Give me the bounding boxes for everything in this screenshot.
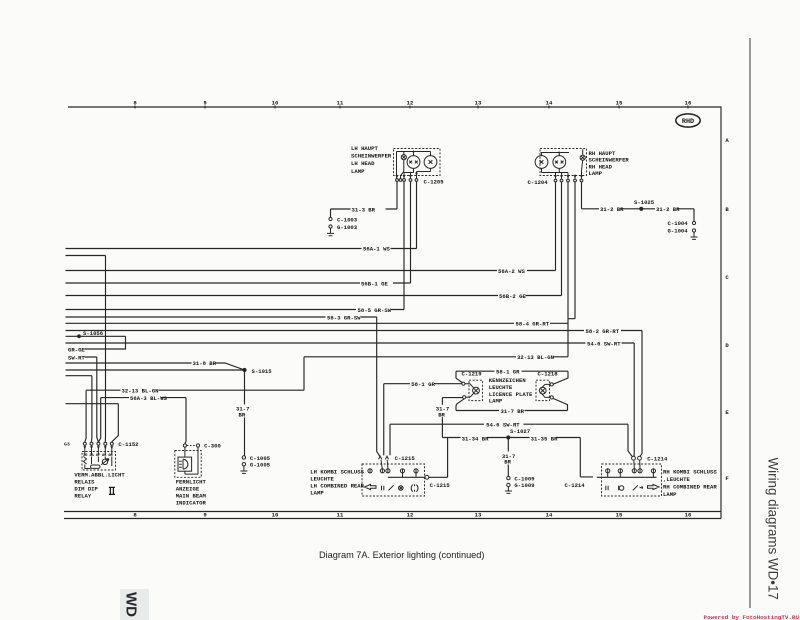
svg-text:LAMP: LAMP (310, 489, 324, 496)
svg-text:31-8 BR: 31-8 BR (193, 360, 217, 367)
svg-text:58-1 GR: 58-1 GR (496, 369, 520, 376)
svg-text:DIM DIP: DIM DIP (74, 485, 98, 492)
svg-text:LAMP: LAMP (663, 491, 677, 498)
svg-text:31-35 BR: 31-35 BR (531, 435, 558, 442)
svg-text:11: 11 (337, 100, 344, 107)
svg-text:C-1215: C-1215 (430, 482, 451, 489)
svg-text:C-1219: C-1219 (462, 371, 483, 378)
svg-text:RELAY: RELAY (74, 492, 91, 499)
svg-text:MAIN BEAM: MAIN BEAM (176, 492, 207, 499)
svg-text:F: F (725, 475, 729, 482)
svg-text:RELAIS: RELAIS (74, 478, 95, 485)
svg-text:14: 14 (546, 100, 553, 107)
svg-text:54-6 SW-RT: 54-6 SW-RT (587, 340, 621, 347)
svg-text:LH KOMBI SCHLUSS: LH KOMBI SCHLUSS (310, 468, 364, 475)
svg-text:58-5 GR-SW: 58-5 GR-SW (358, 307, 392, 314)
svg-text:11: 11 (337, 512, 344, 519)
svg-text:G-1004: G-1004 (668, 228, 689, 235)
svg-text:LAMP: LAMP (589, 170, 603, 177)
svg-text:32-13 BL-GN: 32-13 BL-GN (517, 354, 554, 361)
svg-text:C-1204: C-1204 (528, 179, 549, 186)
svg-text:32-13 BL-GN: 32-13 BL-GN (122, 387, 159, 394)
svg-text:C-1152: C-1152 (118, 441, 139, 448)
svg-text:E: E (725, 409, 729, 416)
svg-text:13: 13 (475, 100, 482, 107)
svg-text:58-4 GR-RT: 58-4 GR-RT (516, 321, 550, 328)
svg-text:BR: BR (438, 411, 445, 418)
svg-text:56B-1 GE: 56B-1 GE (361, 280, 388, 287)
svg-text:BR: BR (239, 411, 246, 418)
svg-text:31-34 BR: 31-34 BR (462, 435, 489, 442)
svg-text:C-1214: C-1214 (647, 456, 668, 463)
svg-text:14: 14 (546, 512, 553, 519)
svg-text:58-1 GR: 58-1 GR (411, 381, 435, 388)
svg-text:31-7 BR: 31-7 BR (501, 408, 525, 415)
svg-text:LH HEAD: LH HEAD (351, 160, 375, 167)
svg-text:,LEUCHTE: ,LEUCHTE (663, 476, 690, 483)
svg-text:Powered by FotoHostingTV.RU: Powered by FotoHostingTV.RU (704, 614, 800, 620)
svg-text:Wiring diagrams WD•17: Wiring diagrams WD•17 (766, 458, 781, 600)
svg-text:9: 9 (203, 512, 207, 519)
svg-text:C-1218: C-1218 (538, 371, 559, 378)
svg-text:12: 12 (407, 100, 414, 107)
svg-text:GR-GE: GR-GE (68, 346, 85, 353)
svg-text:G-1003: G-1003 (337, 224, 358, 231)
svg-text:BR: BR (504, 459, 511, 466)
svg-text:LH COMBINED REAR: LH COMBINED REAR (310, 482, 364, 489)
svg-text:A: A (725, 137, 729, 144)
svg-text:LH HAUPT: LH HAUPT (351, 145, 378, 152)
svg-text:C-300: C-300 (204, 442, 221, 449)
svg-text:58-3 GR-SW: 58-3 GR-SW (327, 314, 361, 321)
svg-text:S-1025: S-1025 (634, 199, 655, 206)
svg-text:16: 16 (685, 512, 692, 519)
svg-text:31-3 BR: 31-3 BR (352, 206, 376, 213)
svg-text:16: 16 (685, 100, 692, 107)
svg-text:WD: WD (123, 592, 140, 617)
svg-text:S-1015: S-1015 (252, 368, 273, 375)
svg-text:G-1009: G-1009 (514, 482, 535, 489)
svg-text:SW-RT: SW-RT (68, 354, 85, 361)
svg-text:13: 13 (475, 512, 482, 519)
svg-text:15: 15 (616, 100, 623, 107)
svg-text:LAMP: LAMP (489, 398, 503, 405)
svg-text:RHD: RHD (682, 118, 694, 126)
svg-text:10: 10 (272, 512, 279, 519)
svg-text:S-1056: S-1056 (83, 330, 104, 337)
svg-text:56A-2 WS: 56A-2 WS (498, 268, 525, 275)
svg-text:INDICATOR: INDICATOR (176, 499, 207, 506)
svg-text:C-1004: C-1004 (668, 220, 689, 227)
svg-text:9: 9 (203, 100, 207, 107)
svg-text:RH COMBINED REAR: RH COMBINED REAR (663, 484, 717, 491)
svg-text:G3: G3 (64, 442, 70, 448)
svg-text:SCHEINWERFER: SCHEINWERFER (351, 153, 392, 160)
svg-text:LAMP: LAMP (351, 168, 365, 175)
svg-text:56A-3 BL-WS: 56A-3 BL-WS (130, 395, 168, 402)
svg-text:8: 8 (133, 100, 137, 107)
svg-text:C-1215: C-1215 (395, 455, 416, 462)
svg-text:C-1205: C-1205 (424, 179, 445, 186)
svg-text:10: 10 (272, 100, 279, 107)
svg-text:FERNLICHT: FERNLICHT (176, 478, 207, 485)
svg-text:56B-2 GE: 56B-2 GE (499, 293, 526, 300)
svg-text:56A-1 WS: 56A-1 WS (363, 246, 390, 253)
svg-text:Diagram 7A. Exterior lighting: Diagram 7A. Exterior lighting (continued… (319, 550, 484, 560)
svg-text:15: 15 (616, 512, 623, 519)
svg-text:ANZEIGE: ANZEIGE (176, 485, 200, 492)
svg-text:VERM.ABBL.LICHT: VERM.ABBL.LICHT (74, 471, 125, 478)
svg-text:31-2 BR: 31-2 BR (600, 206, 624, 213)
svg-text:58-2 GR-RT: 58-2 GR-RT (586, 328, 620, 335)
svg-text:S-1027: S-1027 (510, 428, 530, 435)
svg-text:G-1005: G-1005 (250, 462, 271, 469)
svg-text:D: D (725, 342, 729, 349)
svg-text:B: B (725, 206, 729, 213)
svg-text:12: 12 (407, 512, 414, 519)
svg-text:8: 8 (133, 512, 137, 519)
svg-text:RH KOMBI SCHLUSS: RH KOMBI SCHLUSS (663, 469, 717, 476)
svg-text:C-1003: C-1003 (337, 217, 358, 224)
svg-text:C: C (725, 274, 729, 281)
svg-text:LEUCHTE: LEUCHTE (310, 475, 334, 482)
svg-text:31-2 BR: 31-2 BR (656, 206, 680, 213)
svg-text:C-1214: C-1214 (565, 482, 586, 489)
